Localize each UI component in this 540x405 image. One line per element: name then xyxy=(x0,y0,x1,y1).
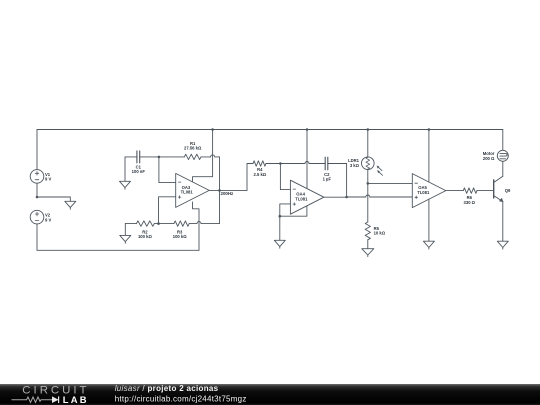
resistor R6 xyxy=(463,188,477,193)
node B junction R4/C2/OA4 inverting xyxy=(279,162,282,165)
pin OA5 non-inverting glyph xyxy=(415,196,418,199)
wire rail to LDR1 xyxy=(367,130,369,158)
wire R1 right with hop over V+ drop xyxy=(201,155,220,157)
ground G1 xyxy=(65,201,76,209)
ground G4 for OA4 xyxy=(274,216,285,248)
op-amp OA5 TL081 xyxy=(412,174,446,208)
wire V2 to bottom rail xyxy=(36,224,38,250)
capacitor C1 xyxy=(137,151,140,163)
node divider junction R2/R3 xyxy=(157,222,160,225)
wire bottom negative rail xyxy=(37,249,199,251)
node OA4 ground junction xyxy=(279,215,282,218)
svg-text:10 kΩ: 10 kΩ xyxy=(374,231,386,236)
wire C1 to node A xyxy=(140,156,159,158)
ground G3 for R2 xyxy=(120,224,131,244)
transistor Q9 xyxy=(494,176,504,202)
resistor R4 xyxy=(253,161,266,166)
wire G3 to R2 xyxy=(125,223,136,225)
motor M1 xyxy=(497,150,508,161)
pin OA4 inverting glyph xyxy=(293,188,296,190)
svg-text:330 Ω: 330 Ω xyxy=(464,200,476,205)
node rail junction OA4 V+ xyxy=(306,128,309,131)
wire left drop to V1 xyxy=(36,130,38,170)
wire divider node to R3 xyxy=(159,223,174,225)
wire rail to OA5 V+ pin xyxy=(428,130,430,183)
wire LDR1 to sense node xyxy=(367,169,369,183)
logo schematic icon wire xyxy=(12,397,53,402)
node rail junction OA3 V+ xyxy=(211,128,214,131)
wire junction to ground G1 xyxy=(37,197,70,201)
wire rail down to motor xyxy=(502,130,504,151)
wire R5 to ground G5 xyxy=(367,240,369,249)
node rail junction OA5 V+ xyxy=(428,128,431,131)
svg-text:3 kΩ: 3 kΩ xyxy=(350,163,360,168)
wire G2 to C1 xyxy=(125,156,137,158)
capacitor C2 xyxy=(325,157,328,170)
node sense junction LDR/R5/OA5 inverting xyxy=(367,182,370,185)
wire R6 to Q9 base xyxy=(477,190,494,192)
svg-text:200 Ω: 200 Ω xyxy=(483,156,495,161)
footer bar xyxy=(0,384,540,405)
ground G6 xyxy=(423,241,434,249)
wire rail to OA4 V+ pin xyxy=(306,130,308,189)
ground G5 xyxy=(362,249,374,257)
svg-text:100 kΩ: 100 kΩ xyxy=(173,234,187,239)
wire node A to R1 xyxy=(159,156,184,158)
wire OA5 V- pin to ground G6 xyxy=(428,199,430,241)
wire OA4 non-inverting input to ground node xyxy=(280,204,291,216)
svg-text:http://circuitlab.com/cj244t3t: http://circuitlab.com/cj244t3t75mgz xyxy=(115,395,247,404)
wire sense node down to R5 xyxy=(367,183,369,222)
svg-text:TL081: TL081 xyxy=(295,197,308,202)
wire R3 right with hop over V- drop, up to output xyxy=(189,190,219,223)
wire V1 to junction xyxy=(36,183,38,197)
svg-text:9 V: 9 V xyxy=(45,177,51,182)
resistor R3 xyxy=(174,221,189,226)
wire rail to OA3 V+ pin xyxy=(193,130,213,182)
wire node B to C2 with hop over OA4 V+ drop xyxy=(280,162,325,164)
wire R2 to divider node xyxy=(154,223,158,225)
ground G7 xyxy=(497,241,508,249)
svg-text:2.5 kΩ: 2.5 kΩ xyxy=(253,172,266,177)
svg-text:luisasr / projeto 2 acionas: luisasr / projeto 2 acionas xyxy=(115,384,219,393)
wire top supply rail xyxy=(37,129,503,131)
node C2 output junction xyxy=(345,196,348,199)
svg-text:100 kΩ: 100 kΩ xyxy=(138,234,152,239)
svg-text:TL081: TL081 xyxy=(181,190,194,195)
svg-text:27.56 kΩ: 27.56 kΩ xyxy=(184,145,202,150)
wire motor to Q9 collector xyxy=(502,161,504,176)
wire divider node to OA3 non-inverting input xyxy=(159,197,176,224)
wire R4 to node B xyxy=(266,163,280,165)
ground G2 for C1 xyxy=(120,157,131,189)
logo diode symbol xyxy=(52,396,59,403)
node rail junction LDR column xyxy=(367,128,370,131)
wire sense node to OA5 inverting input xyxy=(368,182,413,184)
wire OA3 output xyxy=(209,189,247,191)
pin OA5 inverting glyph xyxy=(415,182,418,184)
wire OA4 output to OA5 plus with hop over LDR column xyxy=(324,195,412,197)
svg-text:LAB: LAB xyxy=(63,394,89,405)
resistor R5 xyxy=(365,222,370,240)
voltage source V1 xyxy=(30,170,44,184)
node A junction C1/R1/inverting input xyxy=(158,156,161,159)
svg-text:200Hz: 200Hz xyxy=(221,191,234,196)
wire riser output to R4 xyxy=(247,164,253,191)
wire Q9 emitter to ground G7 xyxy=(502,202,504,242)
svg-text:100 nF: 100 nF xyxy=(132,169,146,174)
op-amp OA4 TL081 xyxy=(290,180,324,214)
pin OA4 non-inverting glyph xyxy=(293,203,296,206)
wire node B to OA4 inverting input xyxy=(280,164,290,190)
wire R1 feedback drop to output xyxy=(219,157,221,191)
resistor R2 xyxy=(136,221,154,226)
svg-text:1 µF: 1 µF xyxy=(323,177,332,182)
svg-text:Q9: Q9 xyxy=(505,188,511,193)
op-amp OA3 TL081 xyxy=(176,173,210,207)
wire node A to OA3 inverting input xyxy=(159,157,176,183)
wire OA5 output to R6 xyxy=(446,190,464,192)
wire C2 right to output node xyxy=(328,164,347,198)
node junction V1-V2 xyxy=(36,196,39,199)
wire OA4 V- pin to ground node xyxy=(280,206,307,216)
wire OA3 V- to bottom rail (hop over R3 wire) xyxy=(193,202,200,250)
pin OA3 non-inverting glyph xyxy=(178,196,181,199)
photoresistor LDR1 xyxy=(362,157,383,175)
pin OA3 inverting glyph xyxy=(178,181,181,183)
node OA3 output junction xyxy=(218,189,221,192)
resistor R1 xyxy=(184,154,201,159)
svg-text:TL081: TL081 xyxy=(417,190,430,195)
svg-text:9 V: 9 V xyxy=(45,217,51,222)
voltage source V2 xyxy=(30,210,44,224)
